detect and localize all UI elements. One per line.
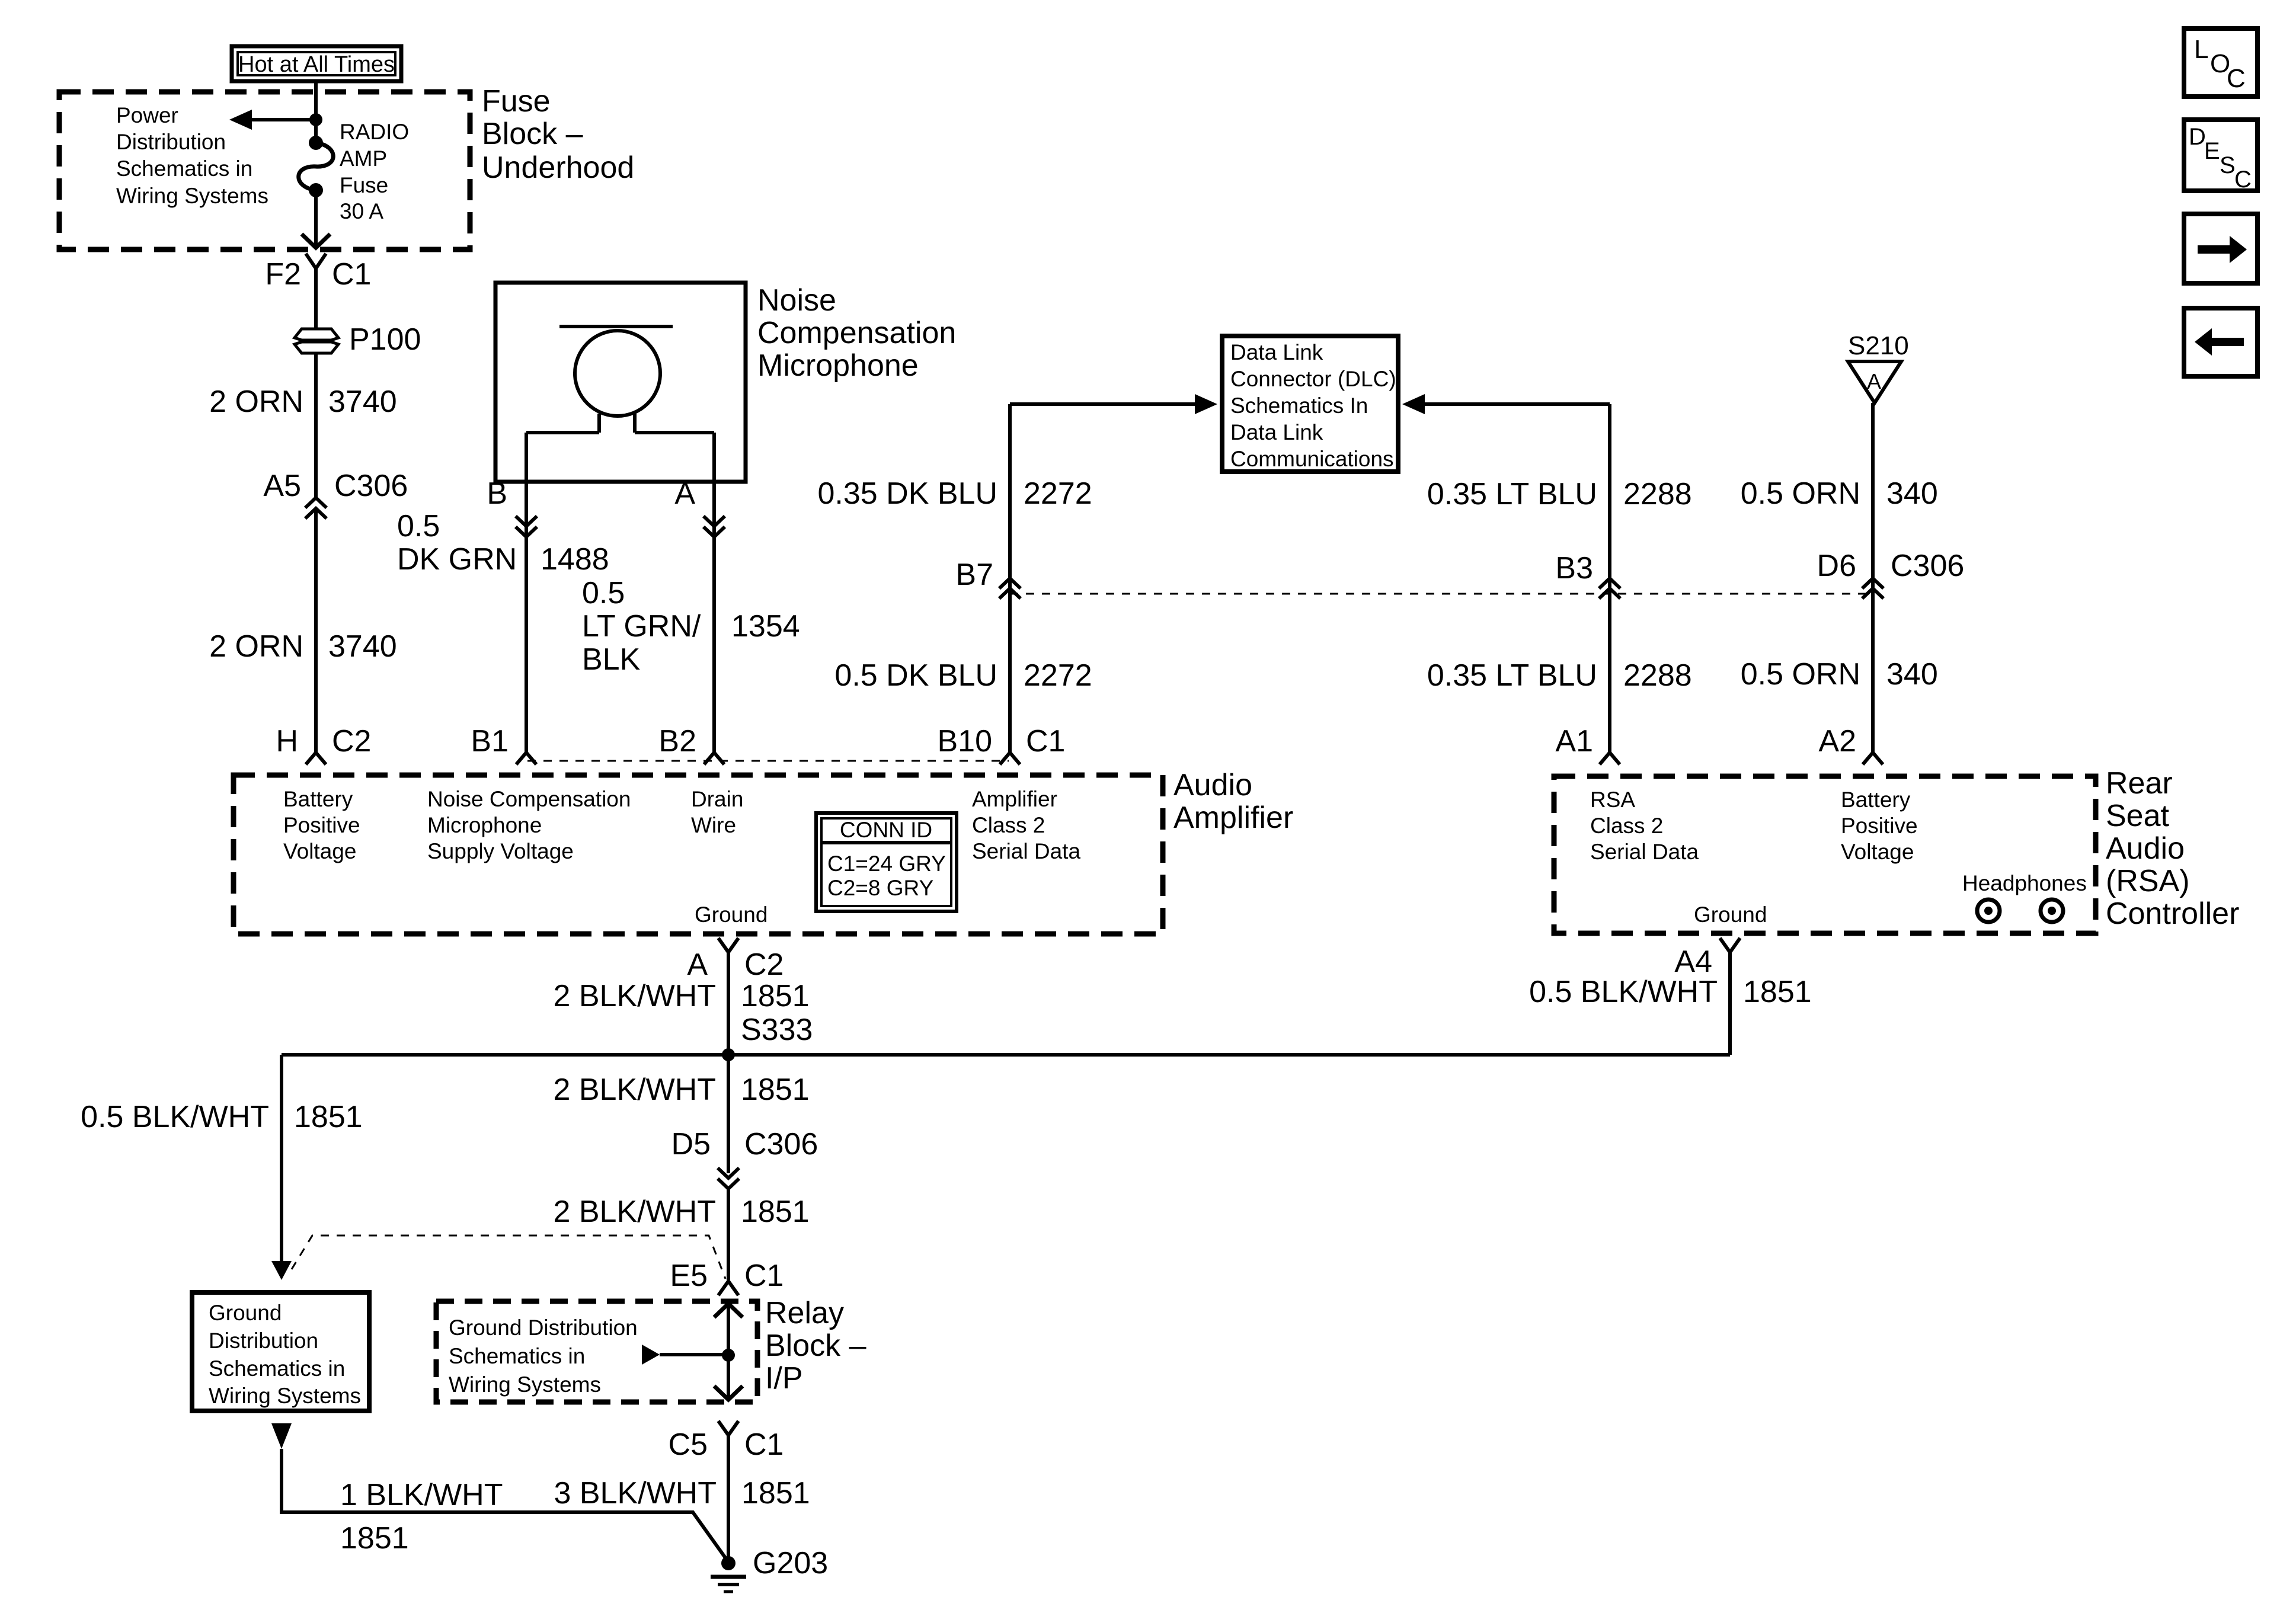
svg-text:Class 2: Class 2	[1590, 814, 1663, 838]
svg-text:Schematics in: Schematics in	[209, 1356, 345, 1381]
svg-text:C306: C306	[1891, 549, 1964, 583]
svg-text:S210: S210	[1848, 331, 1909, 360]
svg-text:0.35 DK BLU: 0.35 DK BLU	[818, 476, 998, 511]
svg-text:Wiring Systems: Wiring Systems	[116, 184, 268, 208]
connector C306 shared dashed line	[1010, 593, 1873, 595]
wire F2 to P100	[314, 268, 318, 329]
svg-text:C2: C2	[744, 948, 784, 982]
svg-text:D: D	[2189, 124, 2206, 150]
svg-text:S: S	[2220, 152, 2236, 178]
svg-text:2288: 2288	[1623, 658, 1692, 693]
icon button DESC	[2184, 120, 2257, 193]
svg-text:Amplifier: Amplifier	[972, 787, 1057, 811]
wire C306 to amplifier (2 ORN 3740)	[209, 508, 397, 753]
audio amplifier dashed box	[234, 775, 1163, 934]
arrow to power distribution reference	[229, 110, 316, 130]
dashed ground reference path	[292, 1235, 725, 1279]
svg-text:0.5 BLK/WHT: 0.5 BLK/WHT	[81, 1100, 269, 1134]
svg-text:3 BLK/WHT: 3 BLK/WHT	[554, 1476, 717, 1510]
svg-text:Block –: Block –	[765, 1329, 866, 1363]
wire C5 to G203 (3 BLK/WHT 1851)	[554, 1435, 810, 1557]
connector pin A4 RSA ground	[1674, 938, 1740, 979]
wire left ground branch (0.5 BLK/WHT 1851)	[81, 1055, 363, 1261]
node: hot bus junction	[309, 113, 322, 126]
svg-text:RADIO: RADIO	[340, 120, 409, 144]
svg-text:Audio: Audio	[1173, 768, 1252, 802]
label Relay Block - I/P	[765, 1296, 866, 1395]
wire S210 to A2 (0.5 ORN 340)	[1741, 403, 1965, 753]
connector pin B2 at amplifier	[658, 724, 724, 764]
noise compensation microphone box	[495, 283, 746, 482]
svg-text:AMP: AMP	[340, 146, 387, 171]
svg-text:Headphones: Headphones	[1962, 871, 2087, 895]
wire from hot feed into fuse block	[314, 81, 318, 143]
svg-text:Voltage: Voltage	[1841, 840, 1914, 864]
svg-text:Controller: Controller	[2106, 897, 2239, 931]
svg-text:Ground: Ground	[695, 902, 768, 927]
wire B10 to data link connector (DLC)	[818, 394, 1218, 753]
svg-text:1 BLK/WHT: 1 BLK/WHT	[340, 1478, 503, 1512]
svg-text:2272: 2272	[1024, 658, 1092, 693]
svg-text:Noise Compensation: Noise Compensation	[427, 787, 631, 811]
svg-text:A1: A1	[1555, 724, 1593, 758]
svg-text:0.35 LT BLU: 0.35 LT BLU	[1427, 477, 1597, 511]
svg-text:C: C	[2234, 167, 2252, 193]
splice S210	[1848, 331, 1909, 403]
svg-text:Fuse: Fuse	[482, 84, 551, 119]
amplifier pin function labels	[283, 787, 1080, 927]
svg-text:A2: A2	[1818, 724, 1856, 758]
svg-text:1851: 1851	[741, 979, 810, 1013]
wire to G203 (1 BLK/WHT 1851)	[282, 1449, 728, 1562]
svg-text:S333: S333	[741, 1013, 813, 1047]
svg-text:Schematics In: Schematics In	[1230, 393, 1368, 418]
connector pin A2 at RSA controller	[1818, 724, 1883, 764]
svg-text:I/P: I/P	[765, 1361, 803, 1395]
svg-text:1851: 1851	[741, 1073, 810, 1107]
svg-text:Ground: Ground	[1694, 902, 1767, 927]
svg-text:Voltage: Voltage	[283, 839, 356, 863]
junction block label: Hot at All Times	[232, 46, 401, 81]
connector F2 / C1	[265, 254, 371, 292]
svg-text:0.5: 0.5	[397, 509, 440, 543]
svg-text:Battery: Battery	[1841, 788, 1911, 812]
label Fuse Block - Underhood	[482, 84, 634, 185]
svg-text:Wiring Systems: Wiring Systems	[449, 1372, 601, 1397]
svg-text:C5: C5	[669, 1427, 708, 1462]
svg-text:L: L	[2194, 35, 2208, 64]
svg-text:C1: C1	[332, 257, 371, 292]
svg-text:Positive: Positive	[283, 813, 360, 837]
svg-text:Seat: Seat	[2106, 799, 2170, 833]
svg-text:Microphone: Microphone	[757, 348, 919, 383]
RSA pin function labels	[1590, 788, 2087, 927]
svg-text:CONN ID: CONN ID	[840, 818, 932, 842]
svg-text:Block –: Block –	[482, 117, 583, 151]
svg-text:D6: D6	[1817, 549, 1856, 583]
svg-text:3740: 3740	[328, 385, 397, 419]
svg-text:C1: C1	[744, 1427, 784, 1462]
svg-text:A5: A5	[263, 469, 301, 503]
relay block - I/P dashed box	[436, 1301, 757, 1402]
connector pin H / C2 at amplifier	[276, 724, 371, 764]
node: relay block junction	[722, 1349, 735, 1362]
relay block note ground distribution	[449, 1315, 638, 1397]
svg-text:Audio: Audio	[2106, 831, 2185, 866]
svg-text:Rear: Rear	[2106, 766, 2173, 801]
connector pin C5 / C1 below relay block	[669, 1421, 784, 1462]
svg-text:Fuse: Fuse	[340, 173, 388, 197]
svg-text:BLK: BLK	[582, 642, 641, 677]
connector pin A / C2 amplifier ground	[687, 938, 784, 982]
rear seat audio (RSA) controller dashed box	[1554, 776, 2096, 933]
label Noise Compensation Microphone	[757, 283, 956, 383]
svg-text:H: H	[276, 724, 298, 758]
svg-text:1851: 1851	[741, 1195, 810, 1229]
svg-text:Distribution: Distribution	[209, 1329, 318, 1353]
svg-text:340: 340	[1886, 476, 1938, 511]
svg-text:(RSA): (RSA)	[2106, 864, 2190, 898]
svg-text:B1: B1	[471, 724, 509, 758]
wire fuse output	[314, 190, 318, 246]
svg-text:0.5 BLK/WHT: 0.5 BLK/WHT	[1529, 975, 1718, 1009]
svg-text:2 ORN: 2 ORN	[209, 629, 303, 664]
svg-text:A: A	[687, 948, 708, 982]
svg-text:Communications: Communications	[1230, 447, 1394, 471]
relay block internal wire	[714, 1304, 743, 1400]
svg-text:Schematics in: Schematics in	[449, 1344, 585, 1368]
svg-text:Drain: Drain	[691, 787, 743, 811]
label Rear Seat Audio (RSA) Controller	[2106, 766, 2239, 931]
svg-text:Amplifier: Amplifier	[1173, 801, 1293, 835]
arrow at fuse block exit	[302, 234, 330, 248]
svg-text:2 BLK/WHT: 2 BLK/WHT	[554, 1195, 717, 1229]
svg-text:Schematics in: Schematics in	[116, 156, 252, 181]
svg-text:30 A: 30 A	[340, 199, 383, 223]
connector pin A1 at RSA controller	[1555, 724, 1620, 764]
svg-text:1851: 1851	[1743, 975, 1812, 1009]
wire mic pin B (0.5 DK GRN 1488)	[397, 433, 609, 753]
svg-text:2288: 2288	[1623, 477, 1692, 511]
svg-text:1851: 1851	[340, 1521, 409, 1555]
fuse RADIO AMP 30A	[299, 120, 409, 223]
label Audio Amplifier	[1173, 768, 1293, 835]
svg-text:Data Link: Data Link	[1230, 420, 1323, 444]
wire P100 to C306 (2 ORN 3740)	[209, 353, 397, 498]
svg-text:0.35 LT BLU: 0.35 LT BLU	[1427, 658, 1597, 693]
svg-text:E: E	[2204, 138, 2220, 164]
svg-text:C1: C1	[744, 1259, 784, 1293]
svg-text:Noise: Noise	[757, 283, 836, 318]
svg-text:C306: C306	[334, 469, 408, 503]
svg-text:DK GRN: DK GRN	[397, 542, 517, 577]
svg-text:Wiring Systems: Wiring Systems	[209, 1384, 361, 1408]
connector pin E5 / C1 at relay block	[670, 1259, 784, 1295]
arrow out of ground distribution box	[271, 1423, 292, 1449]
ground bus wire	[282, 1053, 1730, 1057]
svg-text:Ground: Ground	[209, 1301, 282, 1325]
svg-text:C306: C306	[744, 1127, 818, 1161]
svg-text:0.5 ORN: 0.5 ORN	[1741, 657, 1860, 692]
wire S333 to D5 (2 BLK/WHT 1851)	[554, 1055, 810, 1173]
svg-text:Microphone: Microphone	[427, 813, 542, 837]
svg-text:B: B	[487, 476, 507, 511]
wire D5 to E5 (2 BLK/WHT 1851)	[554, 1189, 810, 1280]
svg-text:0.5: 0.5	[582, 576, 625, 610]
headphone jack right	[2041, 900, 2063, 922]
arrow into ground distribution reference	[271, 1261, 292, 1280]
icon button LOC	[2184, 28, 2257, 97]
in-line connector D5 / C306	[671, 1127, 818, 1189]
svg-text:D5: D5	[671, 1127, 711, 1161]
svg-text:C2=8 GRY: C2=8 GRY	[827, 876, 933, 900]
svg-text:A4: A4	[1674, 945, 1712, 979]
svg-text:Distribution: Distribution	[116, 130, 226, 154]
svg-text:C: C	[2227, 64, 2246, 93]
svg-text:0.5 ORN: 0.5 ORN	[1741, 476, 1860, 511]
data link connector (DLC) reference box	[1222, 336, 1398, 472]
ground G203	[711, 1546, 828, 1592]
in-line connector A5 / C306	[263, 469, 408, 518]
svg-text:2 BLK/WHT: 2 BLK/WHT	[554, 1073, 717, 1107]
svg-text:1488: 1488	[541, 542, 609, 577]
svg-text:Compensation: Compensation	[757, 316, 956, 350]
svg-text:Relay: Relay	[765, 1296, 844, 1330]
connector C1 shared dashed line	[527, 760, 1009, 762]
wire A1 to data link connector (DLC)	[1402, 394, 1692, 753]
svg-text:Power: Power	[116, 103, 178, 127]
svg-text:A: A	[674, 476, 695, 511]
svg-text:Connector (DLC): Connector (DLC)	[1230, 367, 1396, 391]
svg-text:Hot at All Times: Hot at All Times	[238, 52, 395, 77]
fuse block - underhood dashed box	[59, 92, 470, 249]
svg-text:Supply Voltage: Supply Voltage	[427, 839, 574, 863]
svg-text:Wire: Wire	[691, 813, 736, 837]
svg-text:1354: 1354	[731, 609, 800, 644]
splice S333	[722, 1048, 735, 1061]
svg-text:Ground Distribution: Ground Distribution	[449, 1315, 638, 1340]
svg-text:Underhood: Underhood	[482, 151, 634, 185]
svg-text:LT GRN/: LT GRN/	[582, 609, 701, 644]
note: power distribution schematics in wiring systems	[116, 103, 268, 208]
wire mic pin A (0.5 LT GRN/BLK 1354)	[582, 433, 800, 753]
CONN ID table	[816, 813, 957, 911]
svg-text:1851: 1851	[294, 1100, 363, 1134]
connector pin B10 / C1 at amplifier	[937, 724, 1065, 764]
svg-text:RSA: RSA	[1590, 788, 1635, 812]
svg-text:B7: B7	[955, 558, 993, 592]
wire RSA ground (0.5 BLK/WHT 1851)	[1529, 952, 1812, 1055]
svg-text:1851: 1851	[741, 1476, 810, 1510]
svg-text:F2: F2	[265, 257, 301, 292]
svg-text:0.5 DK BLU: 0.5 DK BLU	[834, 658, 997, 693]
svg-text:Data Link: Data Link	[1230, 340, 1323, 364]
svg-text:Battery: Battery	[283, 787, 353, 811]
svg-text:340: 340	[1886, 657, 1938, 692]
microphone icon	[526, 327, 714, 433]
svg-text:C2: C2	[332, 724, 371, 758]
pass-through grommet P100	[295, 322, 421, 357]
svg-text:C1: C1	[1026, 724, 1065, 758]
svg-text:Class 2: Class 2	[972, 813, 1045, 837]
svg-text:E5: E5	[670, 1259, 708, 1293]
svg-text:P100: P100	[349, 322, 421, 357]
svg-text:2 ORN: 2 ORN	[209, 385, 303, 419]
svg-text:G203: G203	[753, 1546, 828, 1580]
svg-text:3740: 3740	[328, 629, 397, 664]
svg-text:Positive: Positive	[1841, 814, 1918, 838]
svg-text:B10: B10	[937, 724, 992, 758]
wire amplifier ground (2 BLK/WHT 1851)	[554, 952, 813, 1055]
ground distribution reference box	[192, 1292, 369, 1411]
headphone jack left	[1977, 900, 2000, 922]
svg-text:Serial Data: Serial Data	[972, 839, 1080, 863]
icon button next arrow	[2184, 214, 2257, 283]
svg-text:2 BLK/WHT: 2 BLK/WHT	[554, 979, 717, 1013]
svg-text:C1=24 GRY: C1=24 GRY	[827, 852, 946, 876]
connector pin B1 at amplifier	[471, 724, 536, 764]
relay block internal branch	[642, 1345, 728, 1365]
svg-text:Serial Data: Serial Data	[1590, 840, 1699, 864]
svg-text:B3: B3	[1555, 551, 1593, 585]
svg-text:B2: B2	[658, 724, 696, 758]
icon button previous arrow	[2184, 308, 2257, 376]
svg-text:A: A	[1867, 369, 1881, 393]
svg-text:2272: 2272	[1024, 476, 1092, 511]
